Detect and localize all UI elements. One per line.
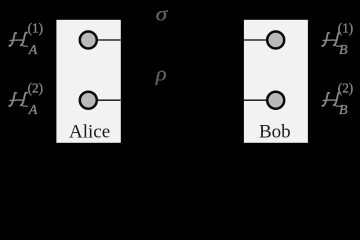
- label: Hilbert space H_B^(1): [322, 21, 353, 59]
- svg-text:(2): (2): [338, 81, 353, 96]
- box: Alice's lab: [56, 20, 120, 143]
- svg-text:(1): (1): [28, 21, 43, 36]
- wire: bottom channel, Alice side (circle A2 to box edge): [96, 99, 121, 101]
- svg-text:B: B: [339, 43, 348, 58]
- label: Hilbert space H_A^(1): [9, 21, 43, 58]
- detector circle B1 (Bob top): [267, 32, 284, 49]
- svg-text:B: B: [339, 103, 348, 118]
- svg-text:(2): (2): [28, 81, 43, 96]
- svg-text:Alice: Alice: [69, 122, 110, 143]
- wire: top channel, Alice side (circle A1 to box edge): [96, 39, 121, 41]
- svg-text:ρ: ρ: [155, 65, 167, 86]
- svg-text:A: A: [28, 43, 38, 58]
- wire: bottom channel, Bob side (box edge to circle B2): [244, 99, 268, 101]
- svg-text:(1): (1): [338, 21, 353, 36]
- detector circle A1 (Alice top): [80, 32, 97, 49]
- svg-text:A: A: [28, 103, 38, 118]
- label: Hilbert space H_A^(2): [9, 81, 43, 118]
- svg-text:Bob: Bob: [259, 122, 291, 143]
- label: Hilbert space H_B^(2): [322, 81, 353, 119]
- detector circle B2 (Bob bottom): [267, 92, 284, 109]
- wire: top channel, Bob side (box edge to circle B1): [244, 39, 268, 41]
- detector circle A2 (Alice bottom): [80, 92, 97, 109]
- svg-text:σ: σ: [156, 5, 169, 26]
- box: Bob's lab: [244, 20, 308, 143]
